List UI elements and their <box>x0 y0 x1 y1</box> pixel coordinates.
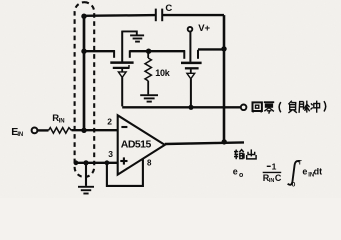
resistor 10k <box>145 51 151 94</box>
resistor R_IN <box>49 128 72 134</box>
svg-text:C: C <box>165 3 172 14</box>
svg-text:3: 3 <box>108 149 113 159</box>
node: output junction <box>222 139 227 144</box>
node: Q2 gate on reset line <box>188 105 193 110</box>
wire: R_IN to op-amp inverting input <box>72 129 118 131</box>
wire: reset line <box>122 106 241 108</box>
svg-text:dt: dt <box>314 166 323 176</box>
回 <box>253 102 262 111</box>
svg-text:10k: 10k <box>155 68 171 78</box>
svg-text:T: T <box>298 160 302 167</box>
wire: pin 8 guard loop <box>107 159 143 186</box>
ground (non-inverting input) <box>78 187 94 194</box>
wire: E_IN to R_IN <box>38 129 49 131</box>
terminal: reset (open circle) <box>241 105 247 111</box>
wire: summing node vertical (inside guard) <box>83 16 86 130</box>
wire: rail to FET1 <box>84 50 115 52</box>
wire: op-amp output <box>165 142 244 144</box>
svg-text:2: 2 <box>107 117 112 127</box>
svg-text:8: 8 <box>147 159 152 168</box>
svg-text:1: 1 <box>272 161 277 171</box>
负 <box>288 101 297 113</box>
plus sign <box>120 157 127 164</box>
脉 <box>299 101 310 113</box>
svg-text:e: e <box>233 167 238 177</box>
svg-text:C: C <box>275 173 282 183</box>
node: summing junction <box>81 128 86 133</box>
terminal E_IN <box>32 127 38 133</box>
integral sign <box>288 161 300 185</box>
svg-text:IN: IN <box>17 132 23 138</box>
冲 <box>311 101 320 113</box>
svg-text:AD515: AD515 <box>121 139 152 151</box>
node: ground stem <box>83 160 88 165</box>
ground (Q1 substrate) <box>122 31 144 41</box>
minus sign <box>267 165 271 167</box>
fraction bar <box>263 171 282 173</box>
wire: FET2 drain to right bus <box>198 48 224 50</box>
输 <box>234 150 244 160</box>
node: 10k top <box>146 49 151 54</box>
wire: right vertical (C/output bus) <box>223 15 226 142</box>
wire: non-inverting input line <box>75 162 118 164</box>
terminal V+ <box>188 27 193 32</box>
svg-text:IN: IN <box>59 119 65 125</box>
node: pin8 guard loop tie <box>105 160 110 165</box>
capacitor C <box>156 9 162 22</box>
op-amp U1 AD515 <box>118 115 165 174</box>
transistor Q1 (reset MOSFET) <box>110 31 133 107</box>
） <box>324 101 326 111</box>
wire: rail FET1 to FET2 <box>130 50 185 52</box>
ground (below 10k) <box>140 95 158 101</box>
出 <box>247 149 256 159</box>
transistor Q2 (reset MOSFET) <box>181 31 202 107</box>
svg-text:o: o <box>239 172 243 179</box>
guard shield dashed capsule <box>75 2 95 177</box>
node: guard tie at capsule <box>74 160 79 165</box>
node: FET2 drain joins right bus <box>221 46 226 51</box>
svg-text:e: e <box>302 166 307 176</box>
svg-text:V+: V+ <box>198 23 210 34</box>
零 <box>264 102 274 114</box>
wire: top feedback to capacitor <box>84 14 156 17</box>
（ <box>279 102 281 112</box>
svg-text:0: 0 <box>292 181 296 188</box>
wire: ground stem <box>85 163 87 186</box>
wire: capacitor to right corner <box>162 14 224 16</box>
label 回零（负脉冲） hand-drawn glyphs <box>253 101 326 114</box>
node: summing junction top <box>81 14 86 19</box>
node: rail leaves summing wire <box>81 49 86 54</box>
minus sign <box>121 126 127 128</box>
svg-text:IN: IN <box>269 178 275 184</box>
label 输出 hand-drawn glyphs <box>234 149 256 159</box>
